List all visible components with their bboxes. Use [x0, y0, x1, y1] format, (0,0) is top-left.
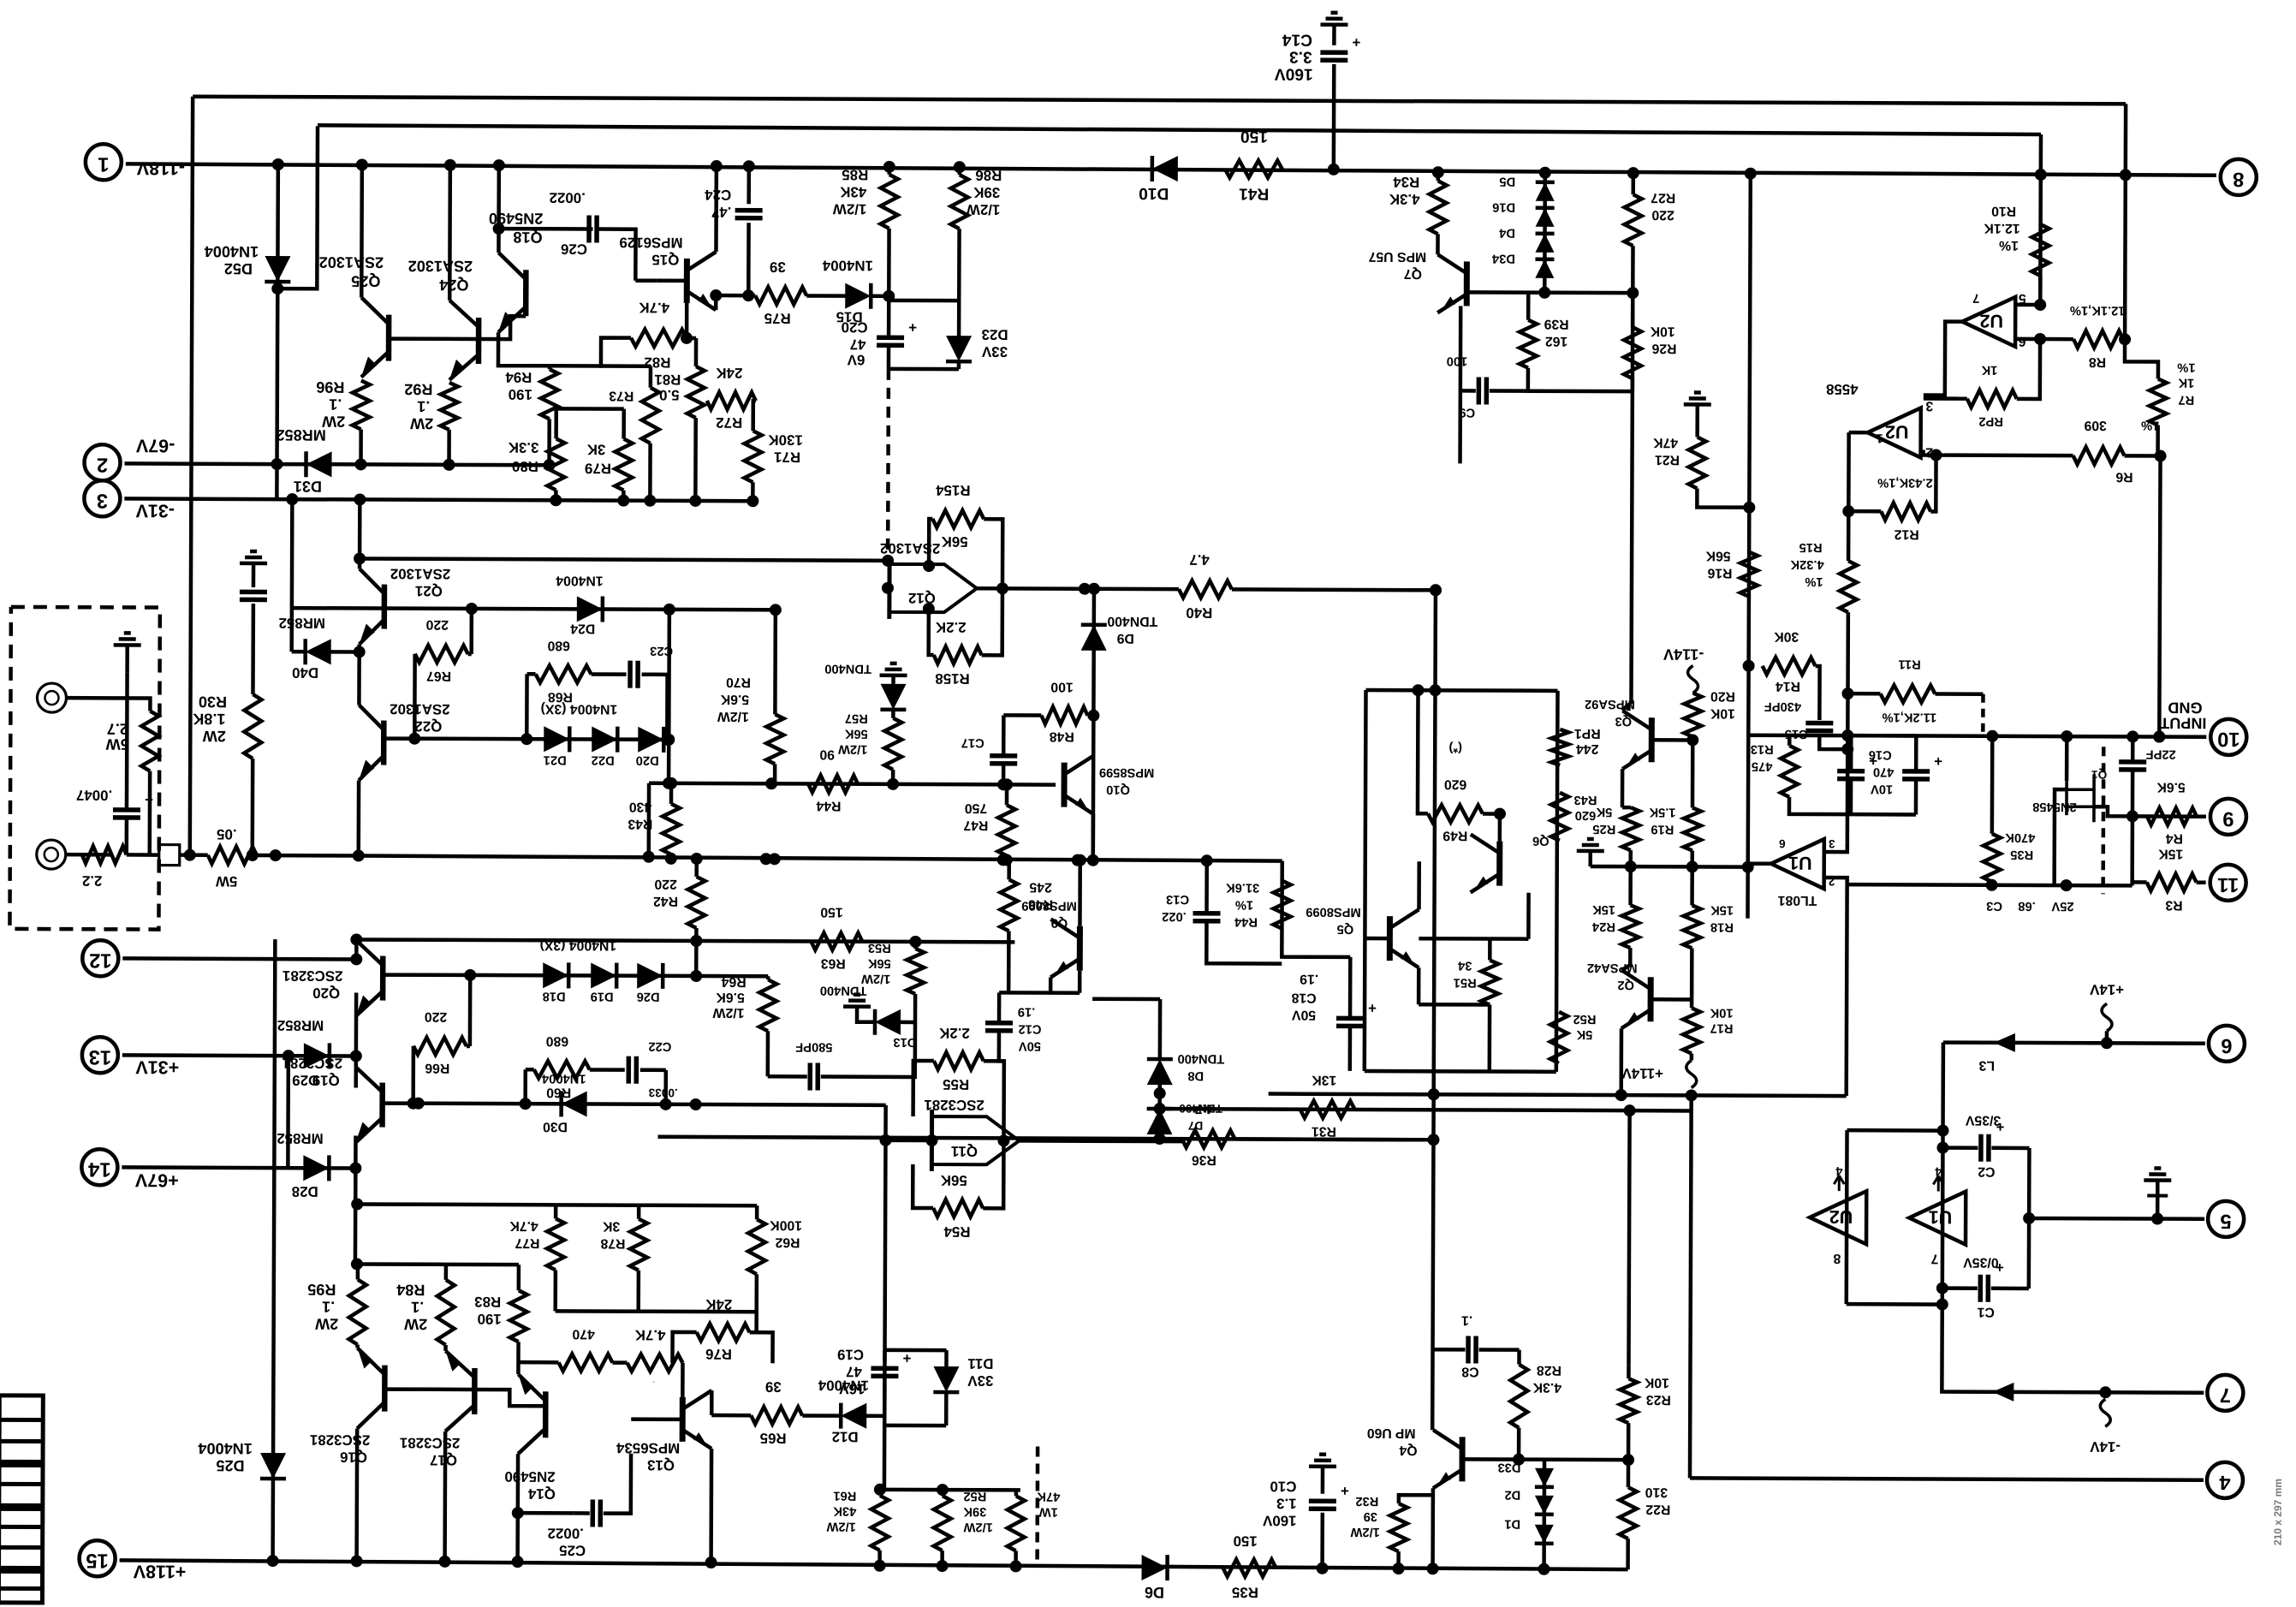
pin 1 (-118V) — [86, 144, 122, 180]
svg-text:R36: R36 — [1192, 1152, 1216, 1167]
svg-text:R30: R30 — [199, 693, 227, 711]
svg-text:56K: 56K — [1705, 548, 1731, 562]
diode D29 MR852 — [304, 1043, 330, 1068]
svg-text:C25: C25 — [559, 1542, 586, 1558]
wire Q14 emitter up — [516, 1342, 520, 1374]
svg-text:Q15: Q15 — [651, 252, 679, 268]
wire x2522 down to GND line — [2159, 456, 2160, 737]
resistor R95 .1 2W — [349, 1279, 366, 1344]
wire pin3 line y587 — [124, 498, 752, 501]
svg-text:1/2W: 1/2W — [713, 1005, 745, 1020]
wire link y1666 — [884, 1424, 946, 1428]
wire pin6 line y1214 — [1943, 1043, 2205, 1044]
svg-text:245: 245 — [1029, 879, 1052, 894]
svg-text:R24: R24 — [1591, 920, 1615, 933]
capacitor C17 .0015 — [990, 753, 1017, 759]
wire U2a out to U2b — [1924, 321, 1962, 395]
svg-text:39K: 39K — [973, 184, 1000, 200]
resistor R26 10K — [1624, 327, 1641, 378]
resistor R27 220 — [1625, 194, 1642, 246]
svg-text:+31V: +31V — [135, 1056, 180, 1077]
wire rail y1101 — [356, 939, 1014, 942]
wire Q13 em — [710, 1390, 714, 1415]
svg-text:4.32K: 4.32K — [1790, 557, 1824, 571]
wire Q1 drain — [2065, 736, 2069, 781]
resistor R94 190 — [541, 369, 558, 419]
svg-text:C2: C2 — [1978, 1164, 1995, 1179]
svg-text:.19: .19 — [1018, 1004, 1035, 1018]
svg-text:Q14: Q14 — [527, 1485, 556, 1502]
diode D6 — [1142, 1555, 1168, 1580]
wire rail y1410 — [357, 1202, 556, 1206]
wire U2a pin6 — [2015, 337, 2073, 342]
resistor R96 .1 2W — [353, 380, 370, 429]
resistor R65 39 — [751, 1407, 802, 1424]
svg-text:RP2: RP2 — [1978, 414, 2003, 428]
wire x1036 link down — [883, 1105, 888, 1140]
transistor Q3 MPSA92 — [1649, 717, 1655, 762]
svg-text:3.3: 3.3 — [1289, 48, 1312, 66]
capacitor C2 3/35V — [1978, 1134, 1984, 1162]
svg-text:100K: 100K — [770, 1217, 802, 1232]
svg-text:3K: 3K — [602, 1219, 620, 1234]
wire -118V bus y196 (pin1 to pin8) — [126, 164, 2216, 175]
svg-text:R31: R31 — [1312, 1124, 1336, 1139]
svg-text:R25: R25 — [1592, 822, 1615, 836]
capacitor C26 .0022 — [586, 215, 592, 242]
svg-text:Q11: Q11 — [951, 1143, 978, 1159]
resistor RP1 244 — [1551, 729, 1568, 765]
svg-text:10K: 10K — [1644, 1375, 1669, 1390]
wire Q3 emitter down — [1621, 769, 1625, 807]
resistor R75 39 — [755, 287, 806, 304]
diode D26 1N4004 — [637, 963, 663, 989]
wire R49 left leg — [1418, 690, 1429, 813]
svg-text:.47: .47 — [711, 204, 732, 220]
wire rail y1005 — [359, 855, 1282, 860]
svg-text:2.2K: 2.2K — [935, 619, 967, 635]
power arrow U1 — [1933, 1176, 1943, 1192]
wire Q14 collector down — [515, 1454, 520, 1562]
svg-text:R41: R41 — [1239, 184, 1270, 202]
svg-text:D22: D22 — [592, 753, 615, 767]
wire C25 tee — [518, 1511, 574, 1515]
svg-text:R62: R62 — [775, 1235, 800, 1249]
svg-text:2SA1302: 2SA1302 — [408, 258, 473, 275]
svg-text:C14: C14 — [1282, 31, 1312, 49]
transistor Q4 MP-U60 — [1459, 1437, 1465, 1481]
resistor R35b 470K — [1984, 834, 2001, 882]
svg-text:R96: R96 — [316, 378, 344, 396]
wire x1905 mid — [1628, 1110, 1629, 1365]
diode D33 — [1535, 1468, 1554, 1487]
wire x1036 to C19 — [883, 1140, 887, 1362]
svg-text:D24: D24 — [570, 621, 595, 635]
svg-text:D4: D4 — [1498, 226, 1515, 240]
svg-text:R92: R92 — [404, 381, 432, 398]
wire pin14 line y1368 — [122, 1167, 357, 1168]
svg-text:R158: R158 — [935, 670, 969, 687]
diode D52 1N4004 — [265, 256, 290, 282]
resistor R70 5.6K 1/2W — [766, 714, 783, 764]
svg-text:D1: D1 — [1504, 1517, 1520, 1531]
svg-text:MR852: MR852 — [277, 1017, 324, 1033]
svg-text:2SA1302: 2SA1302 — [390, 701, 450, 717]
RCA jack J2 — [37, 840, 66, 869]
svg-text:C13: C13 — [1166, 892, 1189, 906]
wire R13 top — [1787, 735, 1792, 746]
wire left vertical x222 — [190, 97, 193, 855]
svg-text:R73: R73 — [609, 389, 633, 403]
wire R80/R79 tops — [556, 407, 624, 411]
svg-text:RP1: RP1 — [1574, 726, 1601, 741]
wire box top y805 — [1366, 688, 1558, 693]
svg-text:56K: 56K — [867, 956, 890, 970]
wire y1703 — [1519, 1457, 1628, 1461]
wire Q5-Q6 link — [1419, 937, 1490, 941]
svg-text:R65: R65 — [760, 1430, 787, 1446]
svg-text:11.2K,1%: 11.2K,1% — [1883, 710, 1937, 723]
wire R66 left leg — [411, 1046, 415, 1104]
wire R96 to -67V — [359, 429, 363, 464]
transistor Q16 2SC3281 — [382, 1366, 388, 1412]
ground in input box — [114, 633, 141, 645]
svg-text:15K: 15K — [1710, 903, 1734, 917]
svg-text:R67: R67 — [426, 669, 451, 683]
wire x2158 to U1 — [1846, 735, 1850, 842]
svg-text:6V: 6V — [847, 352, 865, 368]
svg-text:D26: D26 — [637, 990, 660, 1003]
wire x338 link — [286, 1056, 290, 1168]
pin 14 (+67V) — [81, 1149, 117, 1185]
svg-text:D12: D12 — [832, 1429, 859, 1445]
wire C22 right — [640, 1068, 666, 1072]
wire R82 to Q15 — [685, 303, 689, 338]
wire U2 loop top — [1847, 1128, 1943, 1133]
svg-text:D33: D33 — [1498, 1461, 1521, 1474]
svg-text:620: 620 — [1444, 777, 1467, 791]
svg-text:-67V: -67V — [135, 435, 175, 455]
wire cap box right — [2027, 1148, 2031, 1289]
wire R60 right — [590, 1068, 625, 1072]
svg-text:6: 6 — [2018, 334, 2025, 348]
wire y432 link — [889, 367, 959, 372]
svg-text:R86: R86 — [975, 167, 1002, 183]
zener D23 33V — [946, 336, 972, 361]
svg-text:MPS6534: MPS6534 — [616, 1440, 680, 1456]
wire x779 leg — [663, 1070, 668, 1104]
wire x615 leg — [523, 1069, 527, 1104]
svg-text:9: 9 — [2222, 807, 2234, 830]
wire R77/R78 tops — [556, 1203, 639, 1207]
svg-text:Q5: Q5 — [1337, 922, 1354, 936]
resistor R78 3K — [630, 1219, 647, 1271]
svg-text:R78: R78 — [600, 1236, 625, 1251]
svg-text:1N4004: 1N4004 — [556, 573, 604, 587]
wire R32 top leg — [1399, 1495, 1433, 1503]
svg-text:R10: R10 — [1991, 204, 2016, 218]
wire Q16 collector down — [354, 1428, 359, 1561]
svg-text:-14V: -14V — [2090, 1438, 2121, 1455]
svg-text:1/2W: 1/2W — [967, 201, 1001, 217]
diode D31 MR852 — [306, 451, 331, 477]
wire Q18 collector to C26 — [499, 227, 593, 231]
wire R54 right leg — [983, 1140, 1003, 1208]
wire rail y1277 — [1269, 1094, 1847, 1097]
svg-text:680: 680 — [546, 1033, 569, 1048]
resistor R76 24K — [697, 1324, 750, 1341]
wire R21 to x2042 — [1697, 488, 1749, 507]
svg-text:D10: D10 — [1139, 184, 1169, 202]
svg-text:.19: .19 — [1300, 972, 1318, 986]
svg-text:2W: 2W — [202, 728, 226, 745]
svg-text:TL081: TL081 — [1777, 893, 1817, 908]
diode D21 1N4004 — [544, 726, 569, 752]
svg-text:L3: L3 — [1978, 1058, 1995, 1073]
wire box right x1819 — [1556, 691, 1558, 1072]
svg-text:1/2W: 1/2W — [838, 742, 867, 756]
svg-text:4.3K: 4.3K — [1532, 1380, 1561, 1395]
svg-text:R21: R21 — [1655, 452, 1680, 467]
svg-text:162: 162 — [1545, 334, 1568, 348]
wire R11 right — [1935, 692, 1983, 696]
wire to R82b — [518, 1360, 558, 1365]
svg-text:R76: R76 — [705, 1346, 732, 1362]
svg-text:R66: R66 — [425, 1061, 449, 1075]
svg-text:MR852: MR852 — [279, 615, 326, 631]
wire Q6 top — [1498, 814, 1502, 842]
wire Q18 collector to bus — [497, 165, 501, 253]
svg-text:1/2W: 1/2W — [717, 709, 749, 723]
diode D25 1N4004 — [260, 1453, 286, 1479]
svg-text:R4: R4 — [2166, 831, 2183, 846]
wire R158 right leg — [982, 588, 1002, 655]
svg-text:D11: D11 — [967, 1355, 993, 1372]
wire right main vertical x2042 — [1748, 174, 1751, 867]
wire x872 — [746, 166, 751, 204]
wire x417 top segment — [354, 939, 359, 963]
svg-text:MPS8099: MPS8099 — [1306, 905, 1361, 919]
wire Q3 base to R20 — [1651, 738, 1692, 742]
svg-text:R43: R43 — [1574, 793, 1597, 806]
svg-text:C8: C8 — [1461, 1364, 1478, 1378]
wire y1160 stub — [999, 991, 1080, 995]
resistor R23 10K — [1620, 1378, 1637, 1423]
wire x1977 to pin4 — [1690, 1095, 1692, 1478]
svg-text:6: 6 — [1779, 837, 1786, 850]
svg-text:+118V: +118V — [133, 1561, 186, 1581]
svg-text:+14V: +14V — [2089, 981, 2124, 997]
wire Q17 collector down — [443, 1431, 447, 1562]
wire R158 left leg — [929, 609, 934, 655]
svg-text:3: 3 — [1925, 398, 1933, 413]
svg-text:R48: R48 — [1050, 729, 1074, 744]
resistor R24 15K — [1621, 905, 1639, 948]
svg-text:1/2W: 1/2W — [826, 1520, 855, 1533]
wire R72 to R71 — [753, 401, 756, 431]
svg-text:C24: C24 — [705, 187, 732, 203]
wire R154 right leg — [984, 519, 1002, 588]
svg-text:+114V: +114V — [1621, 1065, 1663, 1081]
svg-text:2SC3281: 2SC3281 — [283, 967, 343, 984]
svg-text:R44: R44 — [816, 799, 841, 813]
svg-text:D30: D30 — [543, 1119, 568, 1134]
capacitor C29 — [240, 590, 267, 595]
svg-text:2W: 2W — [314, 1315, 338, 1332]
svg-text:470: 470 — [1873, 765, 1894, 778]
power arrow U2 — [1834, 1175, 1844, 1191]
resistor R39 162 — [1520, 320, 1537, 368]
svg-text:R81: R81 — [654, 372, 681, 388]
pin 3 (-31V) — [84, 480, 120, 516]
svg-text:4: 4 — [1934, 1164, 1942, 1178]
svg-text:Q25: Q25 — [351, 272, 380, 289]
resistor R66 220 — [413, 1038, 467, 1055]
wire Q9 top — [1078, 860, 1082, 926]
svg-text:12.1K: 12.1K — [1984, 221, 2020, 235]
svg-text:43K: 43K — [839, 184, 866, 200]
diode D28 MR852 — [303, 1155, 329, 1181]
svg-text:1/2W: 1/2W — [963, 1520, 992, 1533]
capacitor C20 47 6V — [877, 336, 904, 341]
svg-text:.0022: .0022 — [548, 1525, 584, 1541]
svg-text:5W: 5W — [216, 873, 237, 890]
wire y1030 rail — [1847, 884, 2132, 885]
resistor R6 309 1% — [2073, 447, 2125, 464]
svg-text:130K: 130K — [768, 432, 803, 448]
wire Q19 emitter down — [354, 1135, 358, 1262]
svg-text:GND: GND — [2168, 699, 2202, 717]
svg-text:10: 10 — [2217, 728, 2239, 750]
wire R76 left — [672, 1332, 696, 1363]
wire rail y1010 — [1591, 865, 1748, 869]
svg-text:430PF: 430PF — [1764, 699, 1801, 713]
diode D14 TDN400 — [880, 684, 906, 710]
resistor R42 220 — [687, 877, 705, 928]
svg-text:50V: 50V — [1019, 1039, 1041, 1052]
resistor R62b 100K — [748, 1219, 765, 1274]
capacitor C19 47 16V — [871, 1366, 898, 1372]
resistor R47 750 — [998, 805, 1015, 855]
wire R35b top — [1990, 736, 1995, 834]
resistor R51 34 — [1481, 960, 1498, 1004]
pin 4 — [2207, 1462, 2243, 1498]
wire C21 left — [768, 1074, 807, 1079]
capacitor C22 .0033 — [626, 1056, 631, 1084]
resistor R19 1.5K — [1684, 807, 1701, 850]
svg-text:Q10: Q10 — [1106, 783, 1130, 796]
svg-text:1K: 1K — [2178, 376, 2194, 390]
resistor R57 56K 1/2W — [884, 718, 901, 770]
svg-text:4: 4 — [2219, 1471, 2231, 1493]
transistor Q19 2SC3281 — [379, 1083, 385, 1128]
svg-text:15K: 15K — [2158, 847, 2184, 861]
svg-text:10K: 10K — [1710, 706, 1735, 721]
svg-text:56K: 56K — [941, 533, 968, 550]
svg-text:750: 750 — [965, 801, 988, 815]
svg-text:620: 620 — [1575, 808, 1597, 822]
transistor Q6 MPS8099 — [1496, 842, 1502, 886]
resistor R46 245 — [1000, 879, 1017, 931]
wire R60 left — [526, 1068, 534, 1072]
svg-text:R6: R6 — [2115, 469, 2132, 484]
svg-text:8: 8 — [1833, 1251, 1841, 1265]
svg-text:C12: C12 — [1018, 1021, 1041, 1035]
ground above C29 — [240, 551, 267, 563]
diode D5 — [1536, 182, 1555, 201]
svg-text:1W: 1W — [1039, 1505, 1058, 1519]
svg-text:7: 7 — [2220, 1384, 2231, 1406]
resistor R35 150 — [1223, 1559, 1276, 1576]
svg-text:2: 2 — [97, 453, 108, 475]
resistor R28 4.3K — [1510, 1365, 1527, 1428]
resistor R82b 4.7K — [627, 1354, 682, 1372]
capacitor C12 .19 50V — [985, 1021, 1013, 1026]
svg-text:8: 8 — [2233, 168, 2244, 190]
svg-text:470: 470 — [572, 1326, 595, 1341]
wire rail y917 — [649, 783, 1056, 785]
svg-text:.1: .1 — [1461, 1312, 1472, 1327]
wire x2158 lower — [1844, 884, 1848, 1096]
svg-text:C10: C10 — [1270, 1479, 1296, 1495]
svg-text:24K: 24K — [716, 365, 743, 381]
wire to pin5 — [2029, 1217, 2204, 1221]
svg-text:U2: U2 — [1979, 311, 2003, 331]
resistor R37 47K 1W — [1008, 1496, 1025, 1550]
svg-text:R17: R17 — [1710, 1021, 1733, 1035]
svg-text:2N5490: 2N5490 — [504, 1468, 555, 1485]
wire C13 bottom loop — [1206, 921, 1282, 963]
svg-text:-118V: -118V — [136, 158, 185, 178]
svg-text:150: 150 — [1240, 127, 1268, 145]
wire Q25-Q24 base link — [389, 336, 479, 341]
wire to R82 — [550, 337, 631, 366]
wire R70 top — [773, 610, 777, 714]
svg-text:.1: .1 — [417, 398, 430, 415]
svg-text:4558: 4558 — [1826, 381, 1859, 397]
svg-text:15: 15 — [86, 1549, 108, 1571]
resistor R67 220 — [415, 646, 468, 663]
resistor R54 56K — [933, 1199, 983, 1217]
resistor R82 4.7K — [631, 330, 687, 347]
resistor R53 56K 1/2W — [907, 949, 924, 994]
capacitor C1 .0/35V — [1978, 1275, 1984, 1302]
svg-text:34: 34 — [1457, 958, 1472, 972]
pin 7 — [2207, 1375, 2243, 1411]
svg-text:R47: R47 — [963, 818, 988, 832]
svg-text:.0033: .0033 — [648, 1086, 678, 1099]
svg-text:+: + — [1368, 1000, 1377, 1016]
op-amp U1 power block — [1909, 1191, 1966, 1244]
svg-text:-114V: -114V — [1663, 646, 1704, 663]
svg-text:.022: .022 — [1162, 909, 1187, 923]
capacitor C9 100 — [1477, 377, 1482, 404]
resistor R83 190 — [510, 1290, 527, 1342]
wire U2b output — [1849, 431, 1868, 435]
wire x2491 link — [2130, 816, 2134, 885]
wire Q5 base to left edge — [1365, 937, 1389, 941]
svg-text:Q6: Q6 — [1532, 834, 1550, 848]
pin 10 (INPUT GND) — [2210, 719, 2246, 755]
resistor R68 680 — [536, 665, 592, 682]
transistor Q22 2SA1302 — [381, 721, 387, 765]
resistor R21 47K — [1688, 437, 1705, 488]
svg-text:4.3K: 4.3K — [1389, 191, 1420, 207]
svg-text:310: 310 — [1645, 1485, 1668, 1499]
diode D15 1N4004 — [845, 283, 871, 309]
svg-text:D9: D9 — [1116, 631, 1133, 646]
wire pin12 line y1124 — [122, 958, 358, 959]
